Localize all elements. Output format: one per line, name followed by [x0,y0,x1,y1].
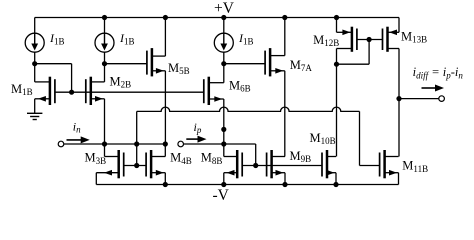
wire M8B source to -V rail [223,173,225,185]
arrow i_diff current [422,87,438,89]
wire M6B drain to M7A gate [224,63,265,65]
transistor M13B [383,27,400,52]
transistor M2B [86,77,105,105]
transistor M5B [147,48,166,76]
junction +V rail / M7A [282,15,287,20]
junction +V rail / I1B(3) [221,15,226,20]
junction M8B/M9B gates [253,163,258,168]
svg-text:-V: -V [213,187,230,204]
terminal i_n input [58,141,64,147]
wire down to M1B/M2B gates [71,64,73,92]
transistor M6B [204,77,224,105]
current source I1B-2 [95,33,114,52]
node M1B drain / I1B(1) [32,61,37,66]
transistor M9B [267,150,285,178]
wire output to terminal [399,98,439,100]
wire +V rail to I1B(1) [34,18,36,34]
node M2B drain / I1B(2) [102,61,107,66]
junction i_n / M5B source / M4B drain [163,141,168,146]
arrow i_p current [186,138,199,140]
wire i_n input bus [64,143,166,145]
wire M11B source to -V rail [398,173,400,185]
transistor M7A [265,48,285,76]
current source I1B-3 [214,33,233,52]
wire bus with crossovers [137,107,360,111]
junction +V rail / I1B(2) [102,15,107,20]
junction +V rail / M5B [163,15,168,20]
wire i_n node to M3B drain [104,144,106,157]
transistor M3B [96,150,123,178]
junction M3B/M4B gates [134,163,139,168]
wire M9B source to -V rail [284,173,286,185]
wire +V rail to M13B source [398,18,400,33]
transistor M10B [322,150,336,178]
wire M1B drain to gate node [35,63,72,65]
wire bus down to M11B gate [359,111,361,165]
terminal i_p input [178,141,184,147]
wire drain node to gate tie [337,63,370,65]
wire i_p to M8B/M9B gates [255,144,257,166]
junction i_n / M2B source / M3B drain [102,141,107,146]
transistor M12B [337,27,357,52]
node output tap [396,96,401,101]
wire M12B drain to M10B drain [336,64,338,156]
junction M12B/M13B gates [367,37,372,42]
junction -V rail / M8B [221,182,226,187]
wire -V rail [96,184,398,186]
wire M10B source to -V rail [335,173,337,185]
transistor M8B [224,150,242,178]
wire +V rail to I1B(2) [104,18,106,34]
junction -V rail / M4B [163,182,168,187]
wire i_n feedback bus to M11B gate [136,111,138,144]
wire M12B/M13B gate down [368,40,370,65]
wire M6B source to i_p node / M8B drain [223,99,225,157]
wire to M11B gate [360,165,380,167]
ground [27,99,42,120]
wire M3B source to -V rail [95,173,97,185]
wire +V rail to M12B source [336,18,338,33]
wire +V rail to M7A drain [284,18,286,56]
transistor M4B [146,150,165,178]
wire M5B source to i_n node [164,71,166,144]
wire gate bus M1B-M2B-M6B [55,91,204,93]
wire M7A source to M9B drain [284,71,286,157]
wire i_n node to M3B/M4B gates [136,144,138,166]
wire M8B/M9B/M10B gate bus [242,165,322,167]
wire M12B drain to node [336,49,338,65]
wire I1B(2) to M2B drain [104,52,106,82]
junction i_p / M6B source / M8B drain [221,141,226,146]
junction M1B/M2B gate node [69,90,74,95]
wire i_p input [183,143,255,145]
wire +V rail [35,17,399,19]
wire M4B source to -V rail [164,173,166,185]
node M6B drain / I1B(3) [221,61,226,66]
wire i_n node to M4B drain [164,144,166,157]
current source I1B-1 [25,33,44,52]
node M12B drain/gate [334,62,339,67]
transistor M11B [380,150,399,178]
wire M2B source to i_n node [104,99,106,144]
arrow i_n current [67,139,83,141]
wire M3B gate to M4B gate [124,165,146,167]
wire I1B(3) to M6B drain [223,52,225,82]
transistor M1B [35,77,55,105]
wire M13B drain to M11B drain [398,49,400,157]
wire M12B gate to M13B gate [357,39,383,41]
wire +V rail to M5B drain [164,18,166,57]
wire I1B(1) to M1B drain [34,52,36,82]
junction i_n / gate bus [134,141,139,146]
wire M2B drain to M5B gate [105,63,147,65]
node on i_p branch [221,127,226,132]
wire +V rail to I1B(3) [223,18,225,34]
svg-text:+V: +V [214,0,235,17]
junction +V rail / M12B [334,15,339,20]
terminal i_diff output [439,96,445,102]
junction -V rail / M9B [282,182,287,187]
junction -V rail / M10B [333,182,338,187]
